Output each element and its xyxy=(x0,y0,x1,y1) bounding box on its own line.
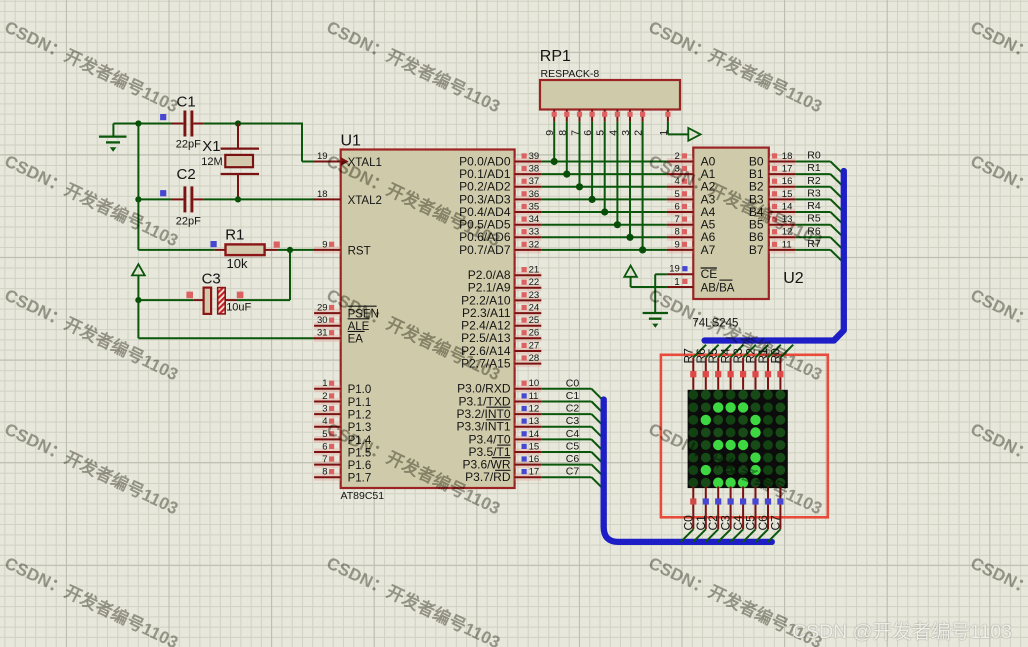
matrix bottom pin C4 xyxy=(731,486,747,542)
pin 10 P3.0/RXD of U1 xyxy=(457,378,541,396)
svg-text:23: 23 xyxy=(529,290,540,301)
svg-text:C0: C0 xyxy=(566,377,580,389)
label R1 xyxy=(225,226,244,243)
pin 29 PSEN of U1 xyxy=(314,303,379,321)
pin 14 B4 of U2 xyxy=(749,201,795,219)
svg-text:34: 34 xyxy=(529,214,540,225)
label C7 xyxy=(566,466,580,478)
label R1 xyxy=(807,162,821,174)
label AT89C51 xyxy=(341,490,385,502)
pin 7 P1.6 of U1 xyxy=(314,454,371,472)
wire B6 to bus xyxy=(795,237,843,250)
pin 21 P2.0/A8 of U1 xyxy=(468,265,542,283)
pin 3 P1.2 of U1 xyxy=(314,404,371,422)
wire P0.4 to A4 net xyxy=(541,211,667,213)
svg-text:P1.6: P1.6 xyxy=(348,460,372,472)
svg-text:15: 15 xyxy=(782,189,793,200)
svg-text:C6: C6 xyxy=(566,453,580,465)
pin 26 P2.5/A13 of U1 xyxy=(461,328,541,346)
svg-text:RP1: RP1 xyxy=(540,48,571,65)
svg-text:R1: R1 xyxy=(807,162,821,174)
svg-text:15: 15 xyxy=(529,441,540,452)
label 74LS245 xyxy=(692,318,738,330)
pin 25 P2.4/A12 of U1 xyxy=(461,315,541,333)
svg-text:22pF: 22pF xyxy=(176,216,201,228)
pin 15 P3.5/T1 of U1 xyxy=(468,441,541,459)
svg-text:AT89C51: AT89C51 xyxy=(341,490,385,502)
svg-text:22: 22 xyxy=(529,277,540,288)
value 12M of X1 xyxy=(201,156,222,168)
wire P0.3 to A3 net xyxy=(541,198,667,200)
svg-text:A7: A7 xyxy=(701,243,716,257)
svg-text:31: 31 xyxy=(317,328,328,339)
label R2 xyxy=(807,175,821,187)
matrix bottom pin C0 xyxy=(681,486,697,542)
matrix bottom pin C1 xyxy=(693,486,709,542)
wire RST net xyxy=(277,249,315,251)
svg-text:U1: U1 xyxy=(341,133,362,150)
pin 31 EA of U1 xyxy=(314,328,365,346)
svg-text:R4: R4 xyxy=(807,200,821,212)
wire P0.1 to A1 net xyxy=(541,173,667,175)
pin 36 P0.3/AD3 of U1 xyxy=(459,189,541,207)
svg-text:12: 12 xyxy=(529,404,540,415)
svg-text:27: 27 xyxy=(529,340,540,351)
wire P0.2 to A2 net xyxy=(541,186,667,188)
matrix top pin R6 xyxy=(694,345,719,390)
label C3 xyxy=(566,415,580,427)
pin 9 A7 of U2 xyxy=(667,239,716,256)
wire B5 to bus xyxy=(795,225,843,238)
pin square left of C3 xyxy=(186,292,193,299)
label R3 xyxy=(807,187,821,199)
junction dot net AD2 xyxy=(576,183,583,190)
svg-text:C7: C7 xyxy=(566,466,580,478)
label RP1 xyxy=(540,48,571,65)
capacitor C2 xyxy=(172,186,204,212)
svg-text:R0: R0 xyxy=(807,150,821,162)
wire XTAL2 net xyxy=(138,198,315,200)
matrix bottom pin C3 xyxy=(718,486,734,542)
pin 12 P3.2/INT0 of U1 xyxy=(456,404,541,422)
svg-text:38: 38 xyxy=(529,164,540,175)
svg-text:10: 10 xyxy=(529,378,540,389)
svg-text:16: 16 xyxy=(782,176,793,187)
svg-text:10uF: 10uF xyxy=(226,302,251,314)
resistor R1 xyxy=(215,244,277,255)
svg-text:39: 39 xyxy=(529,151,540,162)
svg-text:C2: C2 xyxy=(566,403,580,415)
ground symbol GND1 xyxy=(99,124,127,152)
wire B4 to bus xyxy=(795,212,843,225)
svg-text:25: 25 xyxy=(529,315,540,326)
junction dot net AD7 xyxy=(639,246,646,253)
resistor pack RP1 body xyxy=(540,80,680,110)
wire RP1 pin 9 vertical xyxy=(553,122,555,162)
svg-text:17: 17 xyxy=(529,467,540,478)
wire B1 to bus xyxy=(795,174,843,187)
wire P3.0 C0 to bus xyxy=(541,389,604,402)
junction dot net AD0 xyxy=(551,158,558,165)
pin 1 of RP1 xyxy=(658,110,688,136)
value 22pF of C1 xyxy=(176,139,201,151)
wire P3.5 C5 to bus xyxy=(541,452,604,465)
svg-text:33: 33 xyxy=(529,227,540,238)
power arrow terminal T1 xyxy=(132,264,145,300)
pin 9 RST of U1 xyxy=(314,239,371,257)
probe square blue at R1 xyxy=(211,241,217,247)
label R0 xyxy=(807,150,821,162)
value 10k of R1 xyxy=(227,256,248,271)
pin 13 B5 of U2 xyxy=(749,214,795,232)
pin 16 P3.6/WR of U1 xyxy=(462,454,541,472)
LED matrix component box xyxy=(661,355,828,518)
wire R1 to C3 vertical xyxy=(237,250,291,300)
svg-text:6: 6 xyxy=(675,201,680,212)
pin 39 P0.0/AD0 of U1 xyxy=(459,151,541,169)
pin 4 A2 of U2 xyxy=(667,176,716,194)
matrix bottom pin C5 xyxy=(743,486,759,542)
svg-text:U2: U2 xyxy=(783,270,804,287)
svg-text:18: 18 xyxy=(782,151,793,162)
wire RP1 pin 4 vertical xyxy=(616,122,618,225)
pin 5 P1.4 of U1 xyxy=(314,429,372,447)
svg-text:5: 5 xyxy=(675,189,680,200)
svg-text:2: 2 xyxy=(322,391,327,402)
ground symbol GND2 xyxy=(643,313,668,328)
wire P3.7 C7 to bus xyxy=(541,477,604,490)
label C6 xyxy=(566,453,580,465)
pin 1 AB/BA of U2 xyxy=(667,277,735,294)
svg-text:1: 1 xyxy=(674,277,680,288)
pin 34 P0.5/AD5 of U1 xyxy=(459,214,541,232)
svg-text:16: 16 xyxy=(529,454,540,465)
pin 5 A3 of U2 xyxy=(667,189,716,207)
wire B3 to bus xyxy=(795,199,843,212)
svg-text:17: 17 xyxy=(782,164,793,175)
svg-text:19: 19 xyxy=(317,151,328,162)
wire left vertical rail xyxy=(138,124,214,250)
label RESPACK-8 xyxy=(541,68,600,80)
pin 17 P3.7/RD of U1 xyxy=(465,467,541,485)
wire P0.0 to A0 net xyxy=(541,161,667,163)
svg-text:R1: R1 xyxy=(225,226,244,243)
wire RP1 pin 8 vertical xyxy=(566,122,568,175)
LED matrix body xyxy=(688,390,788,488)
wire B2 to bus xyxy=(795,187,843,200)
label C1 xyxy=(177,94,196,111)
value 10uF of C3 xyxy=(226,302,251,314)
svg-text:6: 6 xyxy=(322,441,327,452)
matrix bottom pin C6 xyxy=(755,486,771,542)
pin 37 P0.2/AD2 of U1 xyxy=(459,176,541,194)
svg-text:11: 11 xyxy=(782,239,792,250)
pin 19 XTAL1 of U1 xyxy=(314,151,382,169)
label C5 xyxy=(566,441,580,453)
label R7 xyxy=(807,238,821,250)
junction dot net AD6 xyxy=(626,234,633,241)
matrix top pin R5 xyxy=(706,345,731,390)
svg-text:28: 28 xyxy=(529,353,540,364)
pin 2 P1.1 of U1 xyxy=(314,391,371,409)
junction dot node A xyxy=(135,120,141,126)
matrix top pin R7 xyxy=(681,345,706,390)
label R5 xyxy=(807,213,821,225)
junction dot net AD5 xyxy=(614,221,621,228)
probe square red at R1 xyxy=(274,242,280,248)
svg-text:12M: 12M xyxy=(201,156,222,168)
junction dot net AD1 xyxy=(563,171,570,178)
pin 8 P1.7 of U1 xyxy=(314,467,371,485)
label U2 xyxy=(783,270,804,287)
svg-text:11: 11 xyxy=(529,391,539,402)
svg-text:35: 35 xyxy=(529,201,540,212)
svg-text:P1.1: P1.1 xyxy=(348,397,372,409)
label C1 xyxy=(566,390,580,402)
junction dot node B xyxy=(235,120,241,126)
pin 17 B1 of U2 xyxy=(749,164,795,182)
junction dot net AD4 xyxy=(601,208,608,215)
label R6 xyxy=(807,225,821,237)
wire P3.4 C4 to bus xyxy=(541,439,604,452)
wire AB/BA to power xyxy=(631,277,667,287)
label C4 xyxy=(566,428,580,440)
svg-text:8: 8 xyxy=(675,227,680,238)
probe square at C2 xyxy=(160,190,166,196)
pin 35 P0.4/AD4 of U1 xyxy=(459,201,541,219)
pin 16 B2 of U2 xyxy=(749,176,795,194)
wire B7 to bus xyxy=(795,250,843,263)
svg-text:14: 14 xyxy=(529,429,540,440)
label C2 xyxy=(566,403,580,415)
matrix top pin R3 xyxy=(731,345,756,390)
wire CE to ground xyxy=(655,274,667,313)
matrix top pin R4 xyxy=(719,345,744,390)
svg-text:XTAL2: XTAL2 xyxy=(348,195,382,207)
svg-text:7: 7 xyxy=(675,214,680,225)
capacitor C3 xyxy=(138,288,236,314)
pin 18 XTAL2 of U1 xyxy=(314,189,382,207)
pin 13 P3.3/INT1 of U1 xyxy=(456,416,541,434)
wire RP1 pin 6 vertical xyxy=(591,122,593,200)
wire B0 to bus xyxy=(795,162,843,175)
matrix top pin R1 xyxy=(756,345,781,390)
wire P0.7 to A7 net xyxy=(541,249,667,251)
pin 4 P1.3 of U1 xyxy=(314,416,371,434)
svg-text:7: 7 xyxy=(322,454,327,465)
wire P3.3 C3 to bus xyxy=(541,427,604,440)
pin 9 of RP1 xyxy=(544,110,557,136)
wire RP1 pin 7 vertical xyxy=(579,122,581,187)
svg-text:26: 26 xyxy=(529,328,540,339)
svg-text:24: 24 xyxy=(529,303,540,314)
label C2 xyxy=(177,166,196,183)
svg-text:B7: B7 xyxy=(749,243,764,257)
buffer U2 body (74LS245) xyxy=(693,148,769,299)
wire P3.2 C2 to bus xyxy=(541,414,604,427)
pin 5 of RP1 xyxy=(595,110,608,136)
svg-text:EA: EA xyxy=(348,334,364,346)
svg-text:C5: C5 xyxy=(566,441,580,453)
pin 38 P0.1/AD1 of U1 xyxy=(459,164,541,182)
pin 33 P0.6/AD6 of U1 xyxy=(459,227,541,245)
svg-text:32: 32 xyxy=(529,239,540,250)
pin 1 P1.0 of U1 xyxy=(314,378,371,396)
matrix top pin R0 xyxy=(768,345,793,390)
pin 14 P3.4/T0 of U1 xyxy=(468,429,541,447)
label C0 xyxy=(566,377,580,389)
pin 3 A1 of U2 xyxy=(667,164,716,182)
wire EA net xyxy=(138,300,315,338)
svg-text:3: 3 xyxy=(322,404,327,415)
svg-text:C7: C7 xyxy=(768,515,782,531)
pin 2 of RP1 xyxy=(633,110,646,136)
junction dot node D xyxy=(235,196,241,202)
junction dot node F xyxy=(135,297,141,303)
label C3 xyxy=(202,271,221,288)
pin 8 A6 of U2 xyxy=(667,227,716,245)
pin 6 A4 of U2 xyxy=(667,201,716,219)
pin 2 A0 of U2 xyxy=(667,151,716,169)
wire RP1 pin 2 vertical xyxy=(642,122,644,250)
pin 6 of RP1 xyxy=(582,110,595,136)
LED matrix dots xyxy=(688,390,785,488)
svg-text:9: 9 xyxy=(322,239,327,250)
wire P0.6 to A6 net xyxy=(541,236,667,238)
matrix top pin R2 xyxy=(744,345,769,390)
junction dot node C xyxy=(135,196,141,202)
pin 7 A5 of U2 xyxy=(667,214,716,232)
pin 6 P1.5 of U1 xyxy=(314,441,371,459)
junction dot net AD3 xyxy=(589,196,596,203)
svg-text:10k: 10k xyxy=(227,256,248,271)
pin square right of C3 xyxy=(237,292,244,299)
pin 23 P2.2/A10 of U1 xyxy=(461,290,541,308)
svg-text:P1.7: P1.7 xyxy=(348,473,372,485)
svg-text:22pF: 22pF xyxy=(176,139,201,151)
svg-text:13: 13 xyxy=(529,416,540,427)
bus right (row data) xyxy=(705,171,844,341)
bus left (column data) xyxy=(604,400,772,542)
wire P3.1 C1 to bus xyxy=(541,402,604,415)
pin 27 P2.6/A14 of U1 xyxy=(461,340,541,358)
pin 28 P2.7/A15 of U1 xyxy=(461,353,541,371)
pin 12 B6 of U2 xyxy=(749,227,795,245)
svg-text:RST: RST xyxy=(348,245,371,257)
probe square at C1 xyxy=(160,114,166,120)
label R4 xyxy=(807,200,821,212)
power arrow terminal T3 xyxy=(624,266,637,277)
svg-text:RESPACK-8: RESPACK-8 xyxy=(541,68,600,80)
wire RP1 pin 5 vertical xyxy=(604,122,606,212)
wire RP1 pin 3 vertical xyxy=(629,122,631,238)
svg-text:R3: R3 xyxy=(807,187,821,199)
wire P3.6 C6 to bus xyxy=(541,465,604,478)
svg-text:30: 30 xyxy=(317,315,328,326)
svg-text:18: 18 xyxy=(317,189,328,200)
pin 30 ALE of U1 xyxy=(314,315,370,333)
pin 15 B3 of U2 xyxy=(749,189,795,207)
svg-text:9: 9 xyxy=(675,239,680,250)
svg-text:P1.2: P1.2 xyxy=(348,410,372,422)
label X1 xyxy=(202,138,220,155)
matrix bottom pin C2 xyxy=(706,486,722,542)
matrix bottom pin C7 xyxy=(768,486,784,542)
svg-text:C3: C3 xyxy=(202,271,221,288)
svg-text:C4: C4 xyxy=(566,428,580,440)
pin 11 B7 of U2 xyxy=(749,239,795,256)
pin 3 of RP1 xyxy=(620,110,633,136)
svg-text:1: 1 xyxy=(322,378,327,389)
op-amp U1 body (AT89C51 microcontroller) xyxy=(341,150,515,489)
pin 8 of RP1 xyxy=(557,110,570,136)
pin 19 CE of U2 xyxy=(667,264,717,282)
svg-text:19: 19 xyxy=(669,264,680,275)
svg-text:37: 37 xyxy=(529,176,540,187)
capacitor C1 xyxy=(172,111,204,137)
pin 18 B0 of U2 xyxy=(749,151,795,169)
svg-text:4: 4 xyxy=(322,416,327,427)
svg-text:21: 21 xyxy=(529,265,540,276)
wire top net XTAL1 xyxy=(113,123,315,162)
clock arrow on XTAL1 xyxy=(341,157,349,165)
pin 7 of RP1 xyxy=(570,110,583,136)
svg-text:C3: C3 xyxy=(566,415,580,427)
pin 24 P2.3/A11 of U1 xyxy=(462,303,541,321)
wire P0.5 to A5 net xyxy=(541,224,667,226)
svg-text:C2: C2 xyxy=(177,166,196,183)
label U1 xyxy=(341,133,362,150)
pin 22 P2.1/A9 of U1 xyxy=(468,277,542,295)
svg-text:R2: R2 xyxy=(807,175,821,187)
value 22pF of C2 xyxy=(176,216,201,228)
svg-text:CE: CE xyxy=(701,267,718,281)
svg-text:X1: X1 xyxy=(202,138,220,155)
junction dot node E xyxy=(287,247,293,253)
pin 32 P0.7/AD7 of U1 xyxy=(459,239,541,256)
svg-text:C1: C1 xyxy=(566,390,580,402)
svg-text:36: 36 xyxy=(529,189,540,200)
svg-text:P1.0: P1.0 xyxy=(348,384,372,396)
pin 4 of RP1 xyxy=(607,110,620,136)
pin 11 P3.1/TXD of U1 xyxy=(458,391,541,409)
svg-text:AB/BA: AB/BA xyxy=(701,282,735,294)
crystal X1 xyxy=(221,124,259,200)
svg-text:8: 8 xyxy=(322,467,327,478)
power arrow terminal T2 xyxy=(688,128,700,141)
